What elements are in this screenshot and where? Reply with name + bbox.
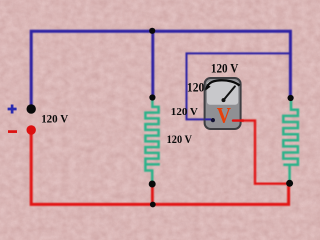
svg-text:120 V: 120 V	[167, 134, 193, 146]
svg-text:V: V	[217, 102, 231, 127]
svg-text:120 V: 120 V	[41, 113, 68, 125]
svg-text:120 V: 120 V	[171, 106, 198, 118]
svg-text:120 V: 120 V	[211, 62, 238, 76]
